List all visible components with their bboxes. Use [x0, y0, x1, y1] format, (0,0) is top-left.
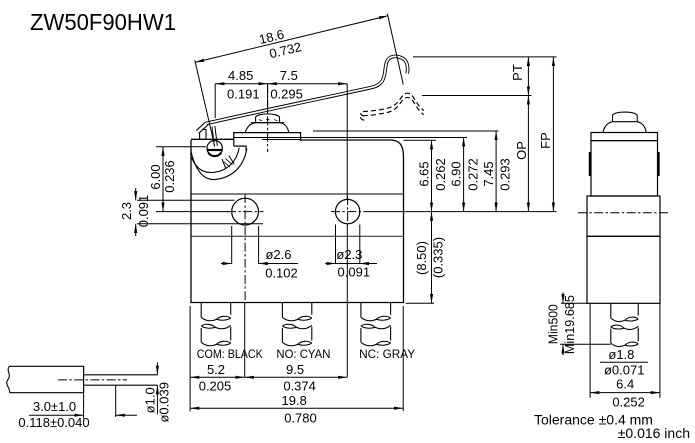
extension line at hinge centre x — [214, 84, 216, 118]
dimension 2.3 extension line top — [137, 199, 235, 201]
side view lead wire (broken segments) — [610, 303, 612, 318]
dimension PT line — [527, 57, 529, 96]
side view body bottom extension to left — [561, 302, 587, 304]
extension line hole centreline to left — [156, 211, 229, 213]
side view extension line right edge down — [659, 303, 661, 398]
mounting hole left — [232, 198, 259, 225]
dimension FP line — [552, 57, 554, 212]
svg-text:7.5: 7.5 — [280, 68, 298, 83]
dimension 7.45 line — [495, 131, 497, 212]
svg-text:PT: PT — [510, 64, 525, 81]
svg-text:5.2: 5.2 — [207, 362, 225, 377]
svg-text:ø0.039: ø0.039 — [156, 382, 171, 422]
dimension 19.8 line — [190, 407, 403, 409]
svg-text:4.85: 4.85 — [228, 68, 253, 83]
mounting hole left crosshair horizontal — [227, 211, 264, 213]
hole dia 2.6 dimension arrows and bar — [221, 263, 232, 265]
svg-text:NC: GRAY: NC: GRAY — [359, 347, 415, 361]
svg-text:0.118±0.040: 0.118±0.040 — [18, 415, 89, 430]
dimension 5.2 line — [190, 376, 245, 378]
svg-text:0.272: 0.272 — [465, 158, 480, 191]
mounting hole right — [335, 199, 359, 223]
svg-text:0.295: 0.295 — [270, 86, 303, 101]
body lower parting line — [191, 235, 404, 237]
svg-text:Min19.685: Min19.685 — [563, 295, 577, 354]
svg-text:ø2.6: ø2.6 — [265, 247, 291, 262]
side view plunger cap — [613, 112, 638, 122]
lever free position (dashed double curve) — [361, 93, 424, 116]
Min500 lower extension line — [560, 343, 611, 345]
plunger centreline (dash-dot) — [267, 84, 269, 152]
rotor link lines to lever — [212, 126, 217, 147]
rotor sector radial line 2 — [229, 156, 235, 165]
cable right end edge — [83, 366, 85, 393]
svg-text:±0.016 inch: ±0.016 inch — [618, 425, 690, 441]
body top edge left segment — [191, 138, 234, 140]
extension line at hinge centre height — [156, 146, 206, 148]
body horizontal parting line — [191, 193, 404, 195]
svg-text:7.45: 7.45 — [481, 161, 496, 186]
extension line x=347 down to hole — [346, 84, 348, 199]
dimension OP line — [527, 96, 529, 212]
svg-text:9.5: 9.5 — [286, 362, 304, 377]
svg-text:2.3: 2.3 — [119, 202, 134, 220]
svg-text:ø1.8: ø1.8 — [608, 347, 634, 362]
body bottom extension to right — [406, 302, 434, 304]
plate bottom line / extension for 6.90 dim — [234, 137, 467, 139]
fraction bar under ø1.8 — [600, 361, 648, 363]
svg-text:0.191: 0.191 — [227, 86, 260, 101]
second plate line — [262, 139, 301, 141]
rotor sector inner arc — [192, 148, 240, 173]
svg-text:3.0±1.0: 3.0±1.0 — [33, 399, 76, 414]
extension line body right edge down — [402, 306, 404, 411]
dimension 6.90 line — [463, 137, 465, 211]
terminal COM (front, two broken-wire segments) — [200, 303, 202, 318]
side view centreline (dash-dot) — [578, 212, 669, 214]
dimension 2.3 extension line bottom — [137, 223, 263, 225]
svg-text:(8.50): (8.50) — [414, 241, 429, 275]
rotor notch staircase — [234, 146, 246, 151]
hole dia 2.6 tangent extension lines — [231, 226, 233, 264]
extension line body left edge down — [189, 306, 191, 412]
hole centreline extension to right — [368, 211, 557, 213]
free position extension line (top) — [413, 56, 557, 58]
svg-text:ø2.3: ø2.3 — [336, 247, 362, 262]
svg-text:0.091: 0.091 — [338, 264, 371, 279]
svg-text:6.90: 6.90 — [449, 161, 464, 186]
terminal NO (front) — [281, 303, 283, 318]
rotor sector outer arc — [191, 149, 247, 180]
svg-text:0.374: 0.374 — [283, 378, 316, 393]
dimension 9.5 line — [245, 376, 348, 378]
dimension 6.65 line — [431, 140, 433, 211]
svg-text:0.780: 0.780 — [284, 410, 317, 425]
cable centreline (dash-dot) — [58, 379, 127, 381]
svg-text:0.236: 0.236 — [162, 160, 177, 193]
side view plunger bell — [603, 122, 646, 133]
extension line at plunger centre x — [267, 84, 269, 113]
dimension 3.0 line with arrows — [29, 414, 84, 416]
rotor sector hatch — [224, 159, 233, 167]
terminal NC (front) — [360, 303, 362, 318]
plunger bell right curve — [280, 123, 289, 133]
svg-text:0.102: 0.102 — [265, 265, 298, 280]
mounting hole right crosshair horizontal — [331, 211, 368, 213]
switch body outline (front view) — [191, 140, 404, 303]
plunger cap (front view) — [256, 114, 280, 123]
hole dia 2.3 tangent extension lines — [335, 225, 337, 265]
extension line at wire 3mm mark — [115, 385, 117, 417]
svg-text:Min500: Min500 — [547, 304, 561, 344]
dimension 6.4 line — [590, 392, 660, 394]
svg-text:NO: CYAN: NO: CYAN — [276, 347, 330, 361]
hole dia 2.3 dimension arrows and bar — [325, 263, 335, 265]
svg-text:0.262: 0.262 — [433, 158, 448, 191]
svg-text:0.091: 0.091 — [136, 195, 151, 228]
hinge lever arm (double line with end hook) — [198, 123, 207, 131]
Min500 dimension arrow stubs — [562, 293, 564, 304]
dimension 18.6/0.732 line (rotated) — [195, 16, 388, 63]
extension line at cable end — [83, 393, 85, 419]
svg-text:6.00: 6.00 — [148, 164, 163, 189]
svg-text:OP: OP — [514, 141, 529, 160]
dimension 18.6 extension line left — [195, 60, 215, 146]
lever inner white line — [207, 56, 408, 123]
side view lower section — [587, 236, 660, 303]
svg-text:0.252: 0.252 — [612, 394, 645, 409]
side view top band — [591, 133, 658, 141]
svg-text:6.65: 6.65 — [417, 161, 432, 186]
side view latch tab left — [589, 152, 591, 176]
dimension 2.3 arrow stubs — [135, 188, 137, 200]
hinge slot line — [207, 149, 222, 151]
side view middle section — [587, 196, 660, 236]
plunger cap flange line — [251, 122, 284, 124]
dimension 6.00/0.236 line — [162, 147, 164, 212]
dimension (8.50) line — [431, 212, 433, 304]
svg-text:6.4: 6.4 — [616, 376, 634, 391]
svg-text:0.205: 0.205 — [199, 378, 232, 393]
side view extension line left edge down — [589, 303, 591, 398]
svg-text:COM: BLACK: COM: BLACK — [197, 347, 263, 361]
mounting hole left crosshair vertical — [244, 194, 246, 303]
mounting hole right crosshair vertical — [347, 196, 349, 224]
extension line divider x=244.7 — [244, 303, 246, 378]
svg-text:0.293: 0.293 — [497, 158, 512, 191]
cable body with break at left — [10, 366, 84, 392]
wire dia dimension arrows — [156, 363, 158, 375]
hinge circle bottom heavy arc — [208, 153, 221, 156]
dimension 4.85 line — [215, 83, 267, 85]
plunger bell left curve — [245, 123, 255, 133]
dimension 18.6 extension line right — [387, 14, 403, 85]
hinge pivot circle — [207, 141, 222, 156]
svg-text:ZW50F90HW1: ZW50F90HW1 — [30, 9, 176, 35]
operating position extension line — [422, 95, 532, 97]
plunger cap knurl marks — [259, 119, 278, 121]
side view upper body — [591, 141, 658, 196]
stripped wire top and bottom lines — [84, 374, 158, 376]
side view latch tab right — [657, 152, 659, 176]
mounting plate on body top — [234, 133, 301, 147]
dimension 7.5 line — [268, 83, 348, 85]
small bump on body top-left — [200, 130, 206, 140]
svg-text:(0.335): (0.335) — [430, 237, 445, 278]
rotor sector radial line 1 — [222, 159, 226, 169]
extension line y=140.3 for 6.65 dim — [404, 139, 437, 141]
svg-text:FP: FP — [538, 132, 553, 149]
svg-text:19.8: 19.8 — [282, 393, 307, 408]
extension line y=131 for 7.45 dim — [313, 130, 499, 132]
svg-text:ø0.071: ø0.071 — [604, 363, 644, 378]
extension line x=347.3 through terminals — [346, 224, 348, 377]
